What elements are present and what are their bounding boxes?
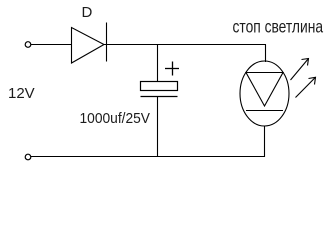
LED D2 cathode bar [246,110,283,112]
wire: capacitor negative plate to bottom rail [157,97,159,157]
wire: top terminal to diode anode [31,44,72,46]
diode D cathode bar [106,23,108,62]
svg-text:стоп светлина: стоп светлина [233,17,324,37]
wire: bottom rail [31,156,265,158]
wire: junction node down to capacitor plus plate [157,45,159,82]
svg-text:12V: 12V [8,85,35,102]
LED D2 triangle [246,73,283,107]
terminal T2 (bottom input, open circle) [25,154,31,160]
capacitor C1 polarity plus sign [165,62,179,76]
LED light arrow 2 [296,77,316,97]
svg-text:D: D [82,4,93,21]
svg-text:1000uf/25V: 1000uf/25V [80,110,151,127]
terminal T1 (top input, open circle) [25,42,31,48]
wire: LED cathode to bottom rail [264,126,266,157]
wire: top rail corner down to LED anode [265,45,267,63]
LED light arrow 1 [291,59,309,81]
capacitor C1 positive plate (box) [141,82,178,91]
diode D triangle (anode) [72,28,105,64]
wire: diode cathode to LED corner (top rail) [104,44,266,46]
capacitor C1 negative plate [141,96,178,98]
LED D2 body (circle) [240,61,289,126]
